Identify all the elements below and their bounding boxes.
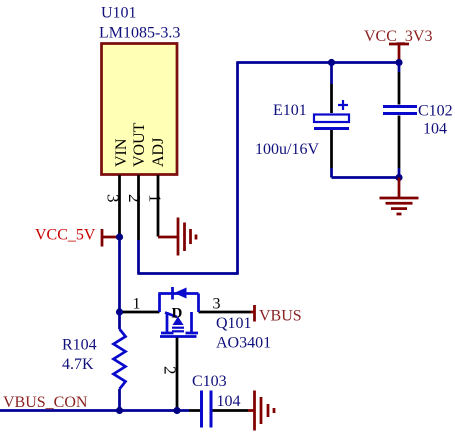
svg-text:VOUT: VOUT [131,122,148,167]
wire VBUS_CON rail [0,409,189,412]
svg-text:VBUS: VBUS [259,308,302,325]
svg-text:U101: U101 [101,5,137,22]
svg-text:LM1085-3.3: LM1085-3.3 [99,25,180,42]
wire VCC_5V junction down to Q101 source node [118,237,121,312]
svg-text:D: D [172,306,183,322]
svg-text:VCC_3V3: VCC_3V3 [364,28,432,45]
svg-text:R104: R104 [62,337,97,354]
node junction Q101 gate / rail [173,407,180,414]
pin 3 of U101 (VIN) [118,175,121,237]
pin 2 of U101 (VOUT) [137,175,140,240]
drain contact [190,312,193,333]
svg-text:104: 104 [423,121,447,138]
node junction rail / E101 [328,59,335,66]
power port VCC_3V3 [389,44,409,63]
resistor R104 [114,312,126,411]
wire VOUT to top rail : down, right, up, right [137,63,399,275]
source contact [166,312,169,333]
capacitor C103 [189,391,248,428]
svg-text:2: 2 [125,194,144,203]
svg-text:C103: C103 [192,373,227,390]
power port VCC_5V [101,229,118,247]
node junction Q101 pin1 / R104 [116,308,123,315]
pin 1 wire (source, from node) [120,311,160,314]
node junction at VCC_5V / pin3 [116,233,123,240]
pin 1 of U101 (ADJ) [157,175,160,237]
svg-text:E101: E101 [273,102,307,119]
wire bottom rail E101 to C102/ground [332,176,400,179]
body frame [158,294,161,313]
transistor Q101 (PMOS AO3401) [120,287,251,411]
power port VBUS [251,305,255,322]
svg-text:VBUS_CON: VBUS_CON [3,394,88,411]
ground (down-facing, right side) [380,178,419,215]
capacitor E101 (electrolytic) [314,63,349,178]
svg-text:VCC_5V: VCC_5V [35,227,96,244]
svg-text:100u/16V: 100u/16V [255,141,319,158]
svg-text:1: 1 [146,194,165,203]
svg-text:4.7K: 4.7K [62,356,94,373]
svg-text:Q101: Q101 [216,315,252,332]
svg-text:VIN: VIN [113,138,130,167]
svg-text:3: 3 [104,194,123,203]
ground (sideways, at ADJ pin) [158,218,196,256]
body diode [171,287,174,300]
center arrow / body mark [165,313,177,318]
node junction R104 / rail [116,407,123,414]
node junction bottom rail / ground [395,174,402,181]
svg-text:1: 1 [133,296,141,313]
svg-text:AO3401: AO3401 [216,335,271,352]
gate pin 2 wire [176,338,179,411]
svg-text:104: 104 [217,393,241,410]
node junction rail / VCC_3V3 / C102 [395,59,402,66]
pin 3 wire (drain, to VBUS) [199,311,251,314]
svg-text:2: 2 [161,366,180,375]
svg-text:3: 3 [213,296,221,313]
ground (sideways, at C103) [248,391,274,431]
capacitor C102 [383,63,417,178]
svg-text:C102: C102 [418,103,453,120]
svg-text:ADJ: ADJ [150,138,167,167]
regulator U101 [102,44,178,175]
gate bar [160,335,197,338]
